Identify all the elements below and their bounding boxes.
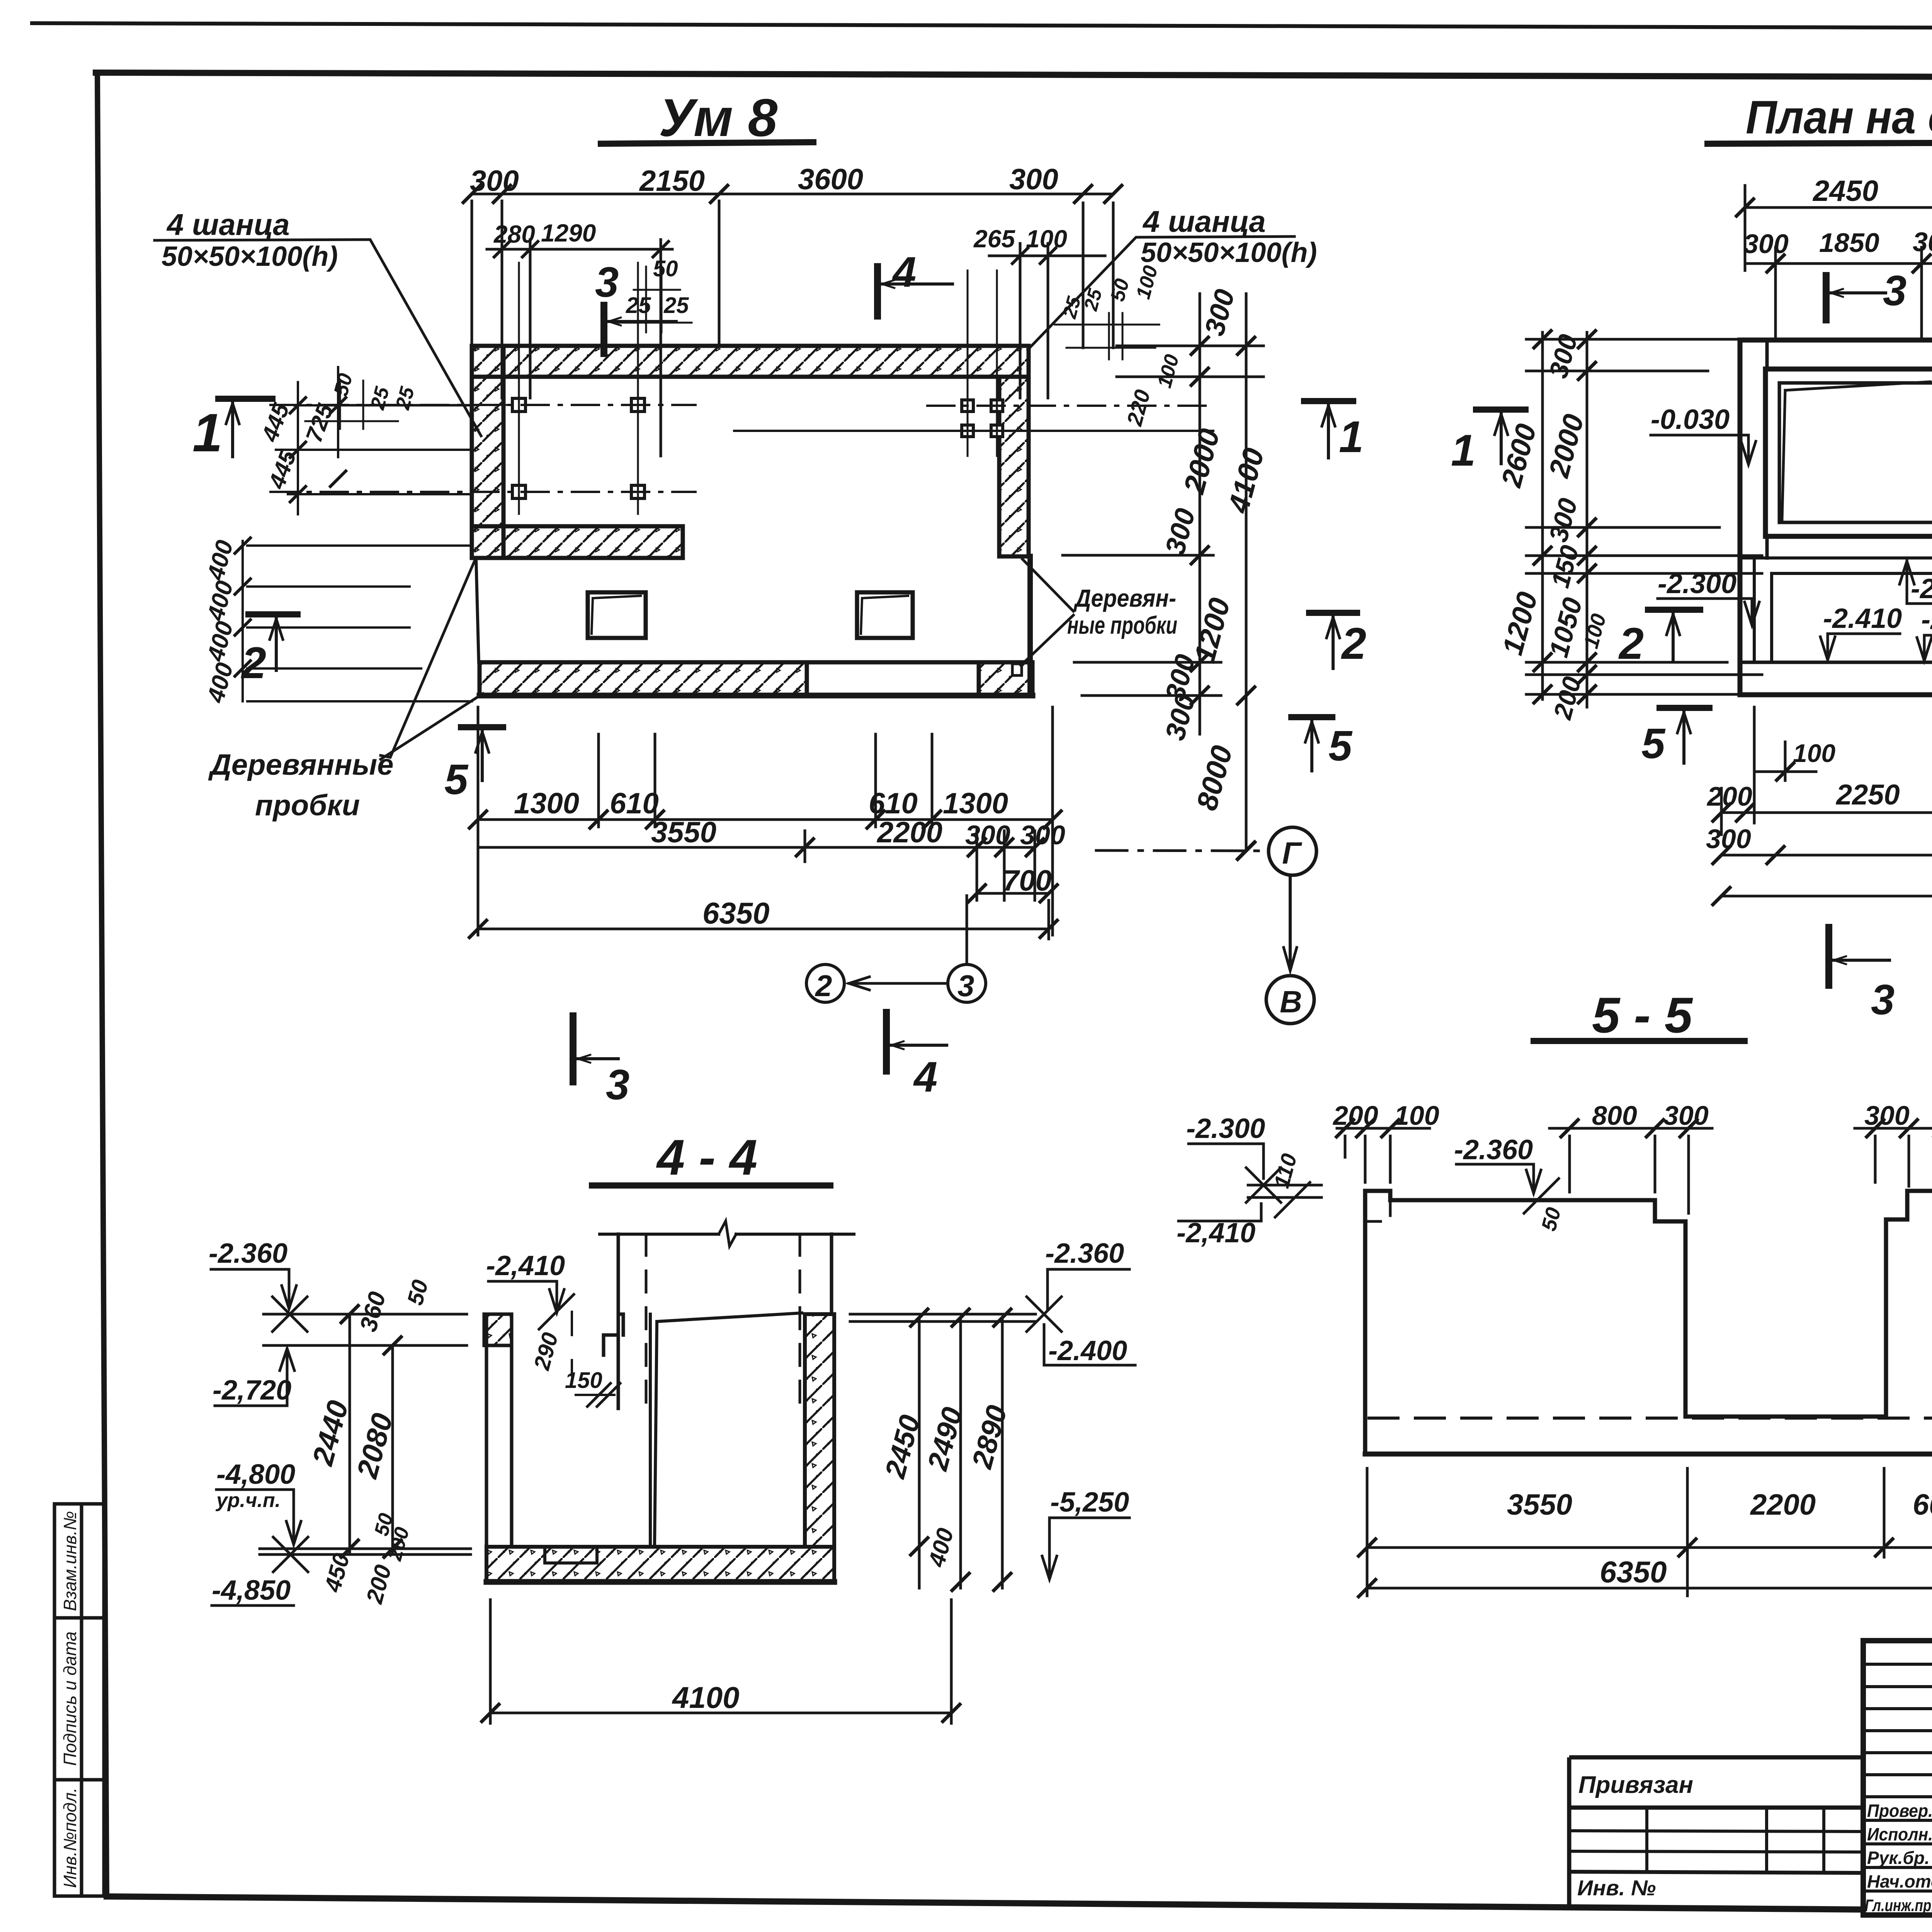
pit formwork slant lines bbox=[1782, 382, 1930, 520]
svg-text:200: 200 bbox=[1332, 1100, 1378, 1131]
svg-text:1: 1 bbox=[1451, 426, 1476, 475]
wall left band hatched bbox=[472, 346, 503, 558]
svg-text:-2,410: -2,410 bbox=[486, 1250, 565, 1281]
bottom section mark 4 bbox=[886, 1012, 947, 1101]
wooden plug rect right in plan bbox=[857, 592, 913, 638]
svg-text:2: 2 bbox=[815, 969, 832, 1003]
level -4,850 left bbox=[212, 1575, 294, 1606]
pit inner formwork lines bbox=[650, 1313, 802, 1547]
svg-text:1290: 1290 bbox=[541, 219, 596, 247]
level -2.360 top bbox=[1454, 1134, 1559, 1213]
step at -2.410 bbox=[604, 1314, 623, 1355]
svg-text:-2.400: -2.400 bbox=[1048, 1335, 1127, 1366]
svg-text:Деревян-: Деревян- bbox=[1073, 584, 1176, 612]
svg-text:50: 50 bbox=[653, 256, 678, 281]
svg-text:3: 3 bbox=[595, 259, 619, 306]
centerline through upper squares bbox=[270, 404, 696, 406]
left margin strip boxes bbox=[54, 1504, 104, 1896]
svg-text:25: 25 bbox=[626, 293, 651, 318]
svg-text:6350: 6350 bbox=[1600, 1555, 1667, 1589]
svg-text:800: 800 bbox=[1592, 1100, 1637, 1131]
svg-text:1300: 1300 bbox=[514, 787, 579, 820]
svg-text:-2.410: -2.410 bbox=[1823, 603, 1902, 634]
dashed floor level line bbox=[1369, 1417, 1932, 1420]
svg-text:-2.360: -2.360 bbox=[209, 1238, 287, 1269]
floor step lines below pit bbox=[1740, 536, 1932, 662]
svg-text:ур.ч.п.: ур.ч.п. bbox=[215, 1489, 281, 1512]
section mark 3 top bbox=[1826, 267, 1906, 320]
svg-text:-2.300: -2.300 bbox=[1186, 1113, 1265, 1144]
label 4 shantsa right bbox=[1028, 204, 1317, 350]
svg-text:3: 3 bbox=[1871, 976, 1895, 1024]
svg-text:5: 5 bbox=[1641, 720, 1666, 767]
svg-text:2: 2 bbox=[241, 638, 266, 688]
inner frame top bbox=[96, 73, 1932, 78]
section bottom line bbox=[1365, 1452, 1932, 1457]
svg-text:2250: 2250 bbox=[1835, 779, 1900, 811]
section mark 5 left bbox=[444, 727, 503, 803]
svg-text:2: 2 bbox=[1618, 619, 1644, 668]
label 4 shantsa left bbox=[155, 207, 481, 436]
left small dims lines bbox=[276, 367, 472, 514]
left wall inner line bbox=[1765, 340, 1769, 558]
axis Г circle bbox=[1096, 827, 1316, 875]
axis B circle with arrow bbox=[1266, 876, 1314, 1024]
svg-text:3550: 3550 bbox=[1507, 1488, 1572, 1521]
top slab line with break bbox=[600, 1233, 854, 1236]
svg-text:610: 610 bbox=[610, 787, 659, 820]
right wall hatched bbox=[805, 1314, 834, 1547]
wall right band hatched bbox=[999, 377, 1029, 556]
bottom band plain middle part bbox=[807, 662, 979, 696]
svg-text:Провер.: Провер. bbox=[1867, 1801, 1932, 1821]
wall right edge line bbox=[1027, 556, 1033, 696]
svg-text:-2,720: -2,720 bbox=[213, 1375, 291, 1406]
vertical square axes right bbox=[968, 270, 997, 456]
section mark 5 left plan bbox=[1641, 708, 1709, 767]
right dim ticks bbox=[1191, 337, 1255, 859]
svg-text:1300: 1300 bbox=[943, 787, 1008, 820]
svg-text:Г: Г bbox=[1282, 836, 1303, 870]
section mark 3 top bbox=[595, 259, 676, 354]
svg-text:3: 3 bbox=[957, 969, 974, 1003]
svg-text:2150: 2150 bbox=[639, 165, 705, 197]
section mark 1 right bbox=[1304, 401, 1364, 462]
svg-text:Взам.инв.№: Взам.инв.№ bbox=[60, 1511, 80, 1611]
pit inner wall bbox=[1779, 383, 1932, 522]
label Derevyan-nye probki right bbox=[1021, 559, 1177, 665]
svg-text:265: 265 bbox=[973, 225, 1015, 253]
right side levels bbox=[1045, 1238, 1129, 1310]
svg-text:25: 25 bbox=[663, 293, 689, 318]
svg-text:-5,250: -5,250 bbox=[1050, 1487, 1129, 1518]
level -2.410 up-arrow bbox=[1900, 561, 1932, 604]
level -2,410 top bbox=[486, 1250, 574, 1329]
floor small trench bbox=[545, 1547, 597, 1563]
svg-text:5 - 5: 5 - 5 bbox=[1592, 987, 1693, 1043]
ground level double line bbox=[260, 1549, 471, 1554]
svg-text:610: 610 bbox=[869, 787, 918, 820]
svg-text:600: 600 bbox=[1913, 1488, 1932, 1521]
level -5,250 right bbox=[1042, 1487, 1129, 1579]
svg-text:300: 300 bbox=[1743, 229, 1789, 259]
svg-text:ные пробки: ные пробки bbox=[1067, 611, 1177, 639]
svg-text:100: 100 bbox=[1793, 739, 1835, 767]
level -2.360 left bbox=[209, 1238, 296, 1309]
svg-text:Инв.№подл.: Инв.№подл. bbox=[60, 1787, 80, 1888]
right dim column lines bbox=[1063, 294, 1264, 850]
svg-text:Привязан: Привязан bbox=[1578, 1772, 1693, 1798]
svg-text:Рук.бр.: Рук.бр. bbox=[1867, 1848, 1930, 1868]
label Derevyannye probki left bbox=[208, 561, 483, 822]
left thin wall bbox=[486, 1314, 512, 1547]
top wall inner line bbox=[1767, 367, 1932, 371]
floor slab hatched bbox=[486, 1547, 834, 1582]
main outline bbox=[1863, 1641, 1932, 1915]
svg-text:-2.410: -2.410 bbox=[1911, 573, 1932, 604]
centerline through lower squares bbox=[270, 491, 696, 493]
svg-text:300: 300 bbox=[470, 165, 519, 197]
top dimension line bbox=[472, 194, 1113, 398]
svg-text:3: 3 bbox=[1883, 267, 1906, 315]
level -2.300 left bbox=[1658, 568, 1759, 625]
inner frame bottom bbox=[107, 1896, 1932, 1916]
svg-text:План на отм. 0,000: План на отм. 0,000 bbox=[1746, 91, 1932, 143]
pit outer wall bbox=[1765, 369, 1932, 536]
section mark 4 top bbox=[878, 248, 952, 316]
svg-text:Исполн.: Исполн. bbox=[1867, 1824, 1932, 1844]
svg-text:пробки: пробки bbox=[255, 789, 360, 822]
svg-text:Гл.инж.пр.: Гл.инж.пр. bbox=[1865, 1896, 1932, 1915]
title underline bbox=[592, 1182, 830, 1189]
title underline bbox=[601, 142, 813, 144]
section mark 5 right bbox=[1291, 717, 1353, 771]
svg-text:Подпись и дата: Подпись и дата bbox=[60, 1631, 80, 1766]
right dim verticals bbox=[919, 1318, 1002, 1588]
inner frame left bbox=[97, 73, 107, 1896]
svg-text:100: 100 bbox=[1026, 225, 1067, 253]
title underline bbox=[1534, 1038, 1745, 1044]
circled axis 3 bbox=[849, 896, 986, 1003]
top dim ticks bbox=[463, 185, 1122, 202]
svg-text:2200: 2200 bbox=[1750, 1488, 1816, 1521]
left wall top hatched cap bbox=[484, 1314, 512, 1345]
upstand walls verticals bbox=[617, 1234, 620, 1408]
svg-text:2200: 2200 bbox=[876, 816, 942, 849]
wall top band hatched bbox=[472, 346, 1029, 377]
level -2.410 low bbox=[1820, 603, 1902, 660]
section mark 2 left bbox=[241, 614, 298, 688]
plan outer wall rect bbox=[1740, 340, 1932, 695]
svg-text:-2.360: -2.360 bbox=[1045, 1238, 1124, 1269]
level cross left bottom bbox=[273, 1537, 308, 1572]
level line -2.720 bbox=[264, 1344, 467, 1347]
left dim verticals bbox=[1526, 332, 1762, 707]
bottom dim row1 1300 610 610 1300 bbox=[478, 707, 1053, 935]
level line -2.360 bbox=[264, 1313, 467, 1316]
svg-text:Инв. №: Инв. № bbox=[1577, 1876, 1656, 1900]
shantsy squares right group bbox=[962, 400, 1003, 437]
svg-text:300: 300 bbox=[1020, 820, 1065, 850]
svg-text:3: 3 bbox=[606, 1061, 629, 1109]
svg-text:4: 4 bbox=[892, 248, 916, 296]
section mark 1 left bbox=[192, 399, 272, 463]
small plug in bottom band bbox=[1012, 664, 1022, 675]
level -4.800 left bbox=[215, 1459, 301, 1544]
svg-text:-2.360: -2.360 bbox=[1454, 1134, 1533, 1165]
svg-text:300: 300 bbox=[965, 820, 1010, 850]
level -2.360 low bbox=[1917, 604, 1932, 661]
svg-text:1: 1 bbox=[192, 402, 223, 463]
floor bottom thick bbox=[486, 1579, 834, 1585]
svg-text:1: 1 bbox=[1339, 412, 1364, 462]
wall inner L band hatched bbox=[472, 526, 683, 558]
section outline bbox=[1365, 1191, 1932, 1454]
svg-text:4100: 4100 bbox=[672, 1680, 740, 1714]
svg-text:100: 100 bbox=[1394, 1100, 1439, 1131]
svg-text:-4,850: -4,850 bbox=[212, 1575, 291, 1606]
wall left edge below L bbox=[476, 558, 479, 662]
svg-text:3600: 3600 bbox=[798, 163, 863, 196]
svg-text:50×50×100(h): 50×50×100(h) bbox=[1141, 237, 1317, 268]
svg-text:-4,800: -4,800 bbox=[216, 1459, 295, 1490]
left levels -2.300 -2.410 bbox=[1186, 1113, 1281, 1202]
right wall tiny dims cluster bbox=[1055, 313, 1159, 359]
svg-text:150: 150 bbox=[565, 1368, 602, 1393]
svg-text:-2,360: -2,360 bbox=[1921, 604, 1932, 635]
section mark 2 right bbox=[1309, 613, 1366, 668]
svg-text:50×50×100(h): 50×50×100(h) bbox=[162, 241, 338, 272]
svg-text:4: 4 bbox=[913, 1053, 937, 1101]
svg-text:В: В bbox=[1280, 985, 1302, 1019]
sheet outer border top bbox=[32, 23, 1932, 29]
small grid horizontals bbox=[1863, 1664, 1932, 1891]
svg-text:Нач.отд: Нач.отд bbox=[1867, 1871, 1932, 1891]
wooden plug rect left in plan bbox=[588, 592, 646, 638]
centerline right squares row1 bbox=[927, 405, 1213, 407]
svg-text:4 шанца: 4 шанца bbox=[166, 207, 290, 241]
dashed step corner top-left bbox=[1365, 1200, 1390, 1221]
svg-text:2450: 2450 bbox=[1812, 175, 1878, 207]
centerline right squares row2 bbox=[734, 430, 1213, 432]
svg-text:6350: 6350 bbox=[702, 896, 770, 930]
bottom section mark 3 plan bbox=[1829, 927, 1895, 1024]
bottom band hatched left part bbox=[480, 662, 807, 696]
svg-text:-0.030: -0.030 bbox=[1651, 404, 1730, 435]
svg-text:300: 300 bbox=[1663, 1100, 1709, 1131]
svg-text:1850: 1850 bbox=[1819, 228, 1879, 258]
svg-text:5: 5 bbox=[444, 756, 469, 803]
svg-text:300: 300 bbox=[1009, 163, 1058, 196]
svg-text:2: 2 bbox=[1341, 619, 1366, 668]
bottom band bottom edge thick bbox=[480, 693, 1032, 699]
section mark 2 left plan bbox=[1618, 610, 1700, 668]
svg-text:3550: 3550 bbox=[651, 816, 716, 849]
bottom band hatched right part bbox=[979, 662, 1032, 696]
bottom section mark 3 bbox=[573, 1016, 629, 1109]
circled axis 2 bbox=[806, 964, 844, 1003]
level -0.030 bbox=[1651, 404, 1756, 464]
shantsy squares left group bbox=[512, 398, 645, 498]
svg-text:300: 300 bbox=[1864, 1100, 1910, 1131]
svg-text:4 шанца: 4 шанца bbox=[1142, 204, 1266, 238]
svg-text:5: 5 bbox=[1328, 722, 1353, 770]
title underline bbox=[1708, 142, 1932, 144]
bottom dim row2 3550 2200 300 300 bbox=[478, 831, 1035, 900]
bottom wall inner line bbox=[1740, 661, 1932, 664]
svg-text:4 - 4: 4 - 4 bbox=[656, 1129, 757, 1185]
vertical square axes left bbox=[519, 263, 638, 514]
svg-text:Ум 8: Ум 8 bbox=[659, 88, 777, 148]
level -2.720 left bbox=[213, 1349, 294, 1406]
section mark 1 left plan bbox=[1451, 410, 1526, 475]
left dim verticals 2440 2080 bbox=[350, 1314, 393, 1554]
level cross left top bbox=[272, 1297, 307, 1332]
svg-text:Деревянные: Деревянные bbox=[208, 748, 393, 781]
